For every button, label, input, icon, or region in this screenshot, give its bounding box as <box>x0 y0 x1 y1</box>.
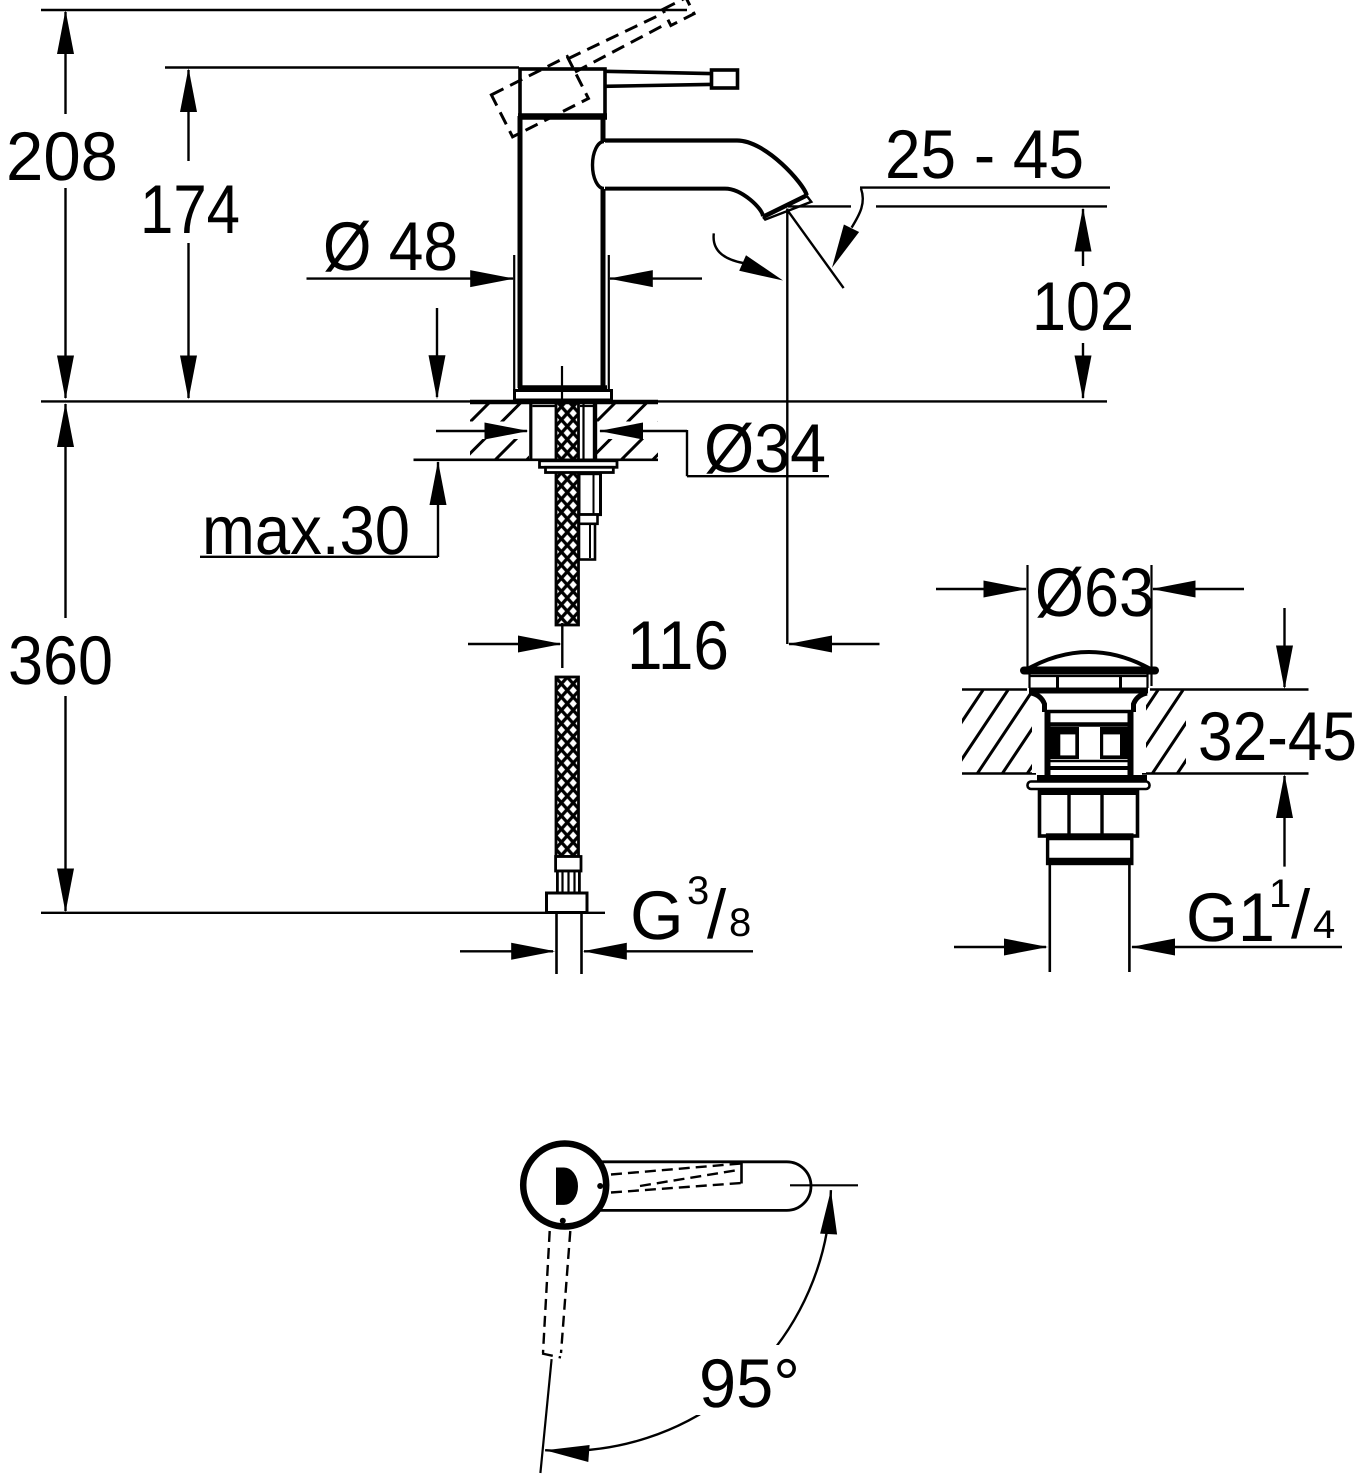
dimension 208 top reference line <box>41 9 687 11</box>
svg-text:G1: G1 <box>1186 879 1275 956</box>
svg-text:/: / <box>1291 876 1311 953</box>
svg-text:102: 102 <box>1032 268 1134 345</box>
waste flange bottom bar <box>1037 775 1147 782</box>
shank right wall <box>593 401 597 460</box>
slash mark <box>788 210 844 288</box>
svg-text:1: 1 <box>1269 872 1291 916</box>
drain hole white <box>1032 691 1146 773</box>
top view handle stadium <box>600 1162 811 1211</box>
dimension D34 leader <box>686 430 688 476</box>
top view dashed lever <box>611 1164 741 1193</box>
waste body lines <box>1046 710 1132 714</box>
dimension 174 line <box>187 70 189 161</box>
faucet body left edge <box>518 116 523 388</box>
spout height vertical line <box>786 209 788 645</box>
counter hatch <box>432 400 713 460</box>
dimension 208 line <box>64 12 66 114</box>
sink deck top line <box>962 688 1027 690</box>
shank inner line right <box>582 402 584 459</box>
faucet body right edge <box>601 118 606 142</box>
waste neck <box>1031 693 1045 712</box>
svg-text:max.30: max.30 <box>202 492 410 569</box>
braided hose lower segment <box>556 677 579 857</box>
waste hex nut <box>1040 790 1138 836</box>
svg-text:116: 116 <box>627 607 729 684</box>
waste collar <box>1048 835 1132 864</box>
waste window band <box>1046 727 1079 759</box>
svg-text:25 - 45: 25 - 45 <box>885 116 1084 193</box>
dimension 25-45 underline <box>860 186 1110 188</box>
svg-text:Ø63: Ø63 <box>1035 554 1154 631</box>
cap slot <box>1028 675 1030 689</box>
braided hose upper segment <box>556 401 579 625</box>
handle lever end cap <box>712 70 738 88</box>
dimension 102 <box>1082 209 1084 266</box>
supply tube <box>555 914 558 975</box>
dimension 32-45 arrows <box>1283 608 1285 687</box>
aerator band <box>763 196 811 220</box>
dimension D63 extension lines <box>1026 565 1028 668</box>
svg-text:174: 174 <box>140 171 240 248</box>
horizontal reference line <box>790 1184 858 1186</box>
spout outline <box>605 141 807 196</box>
dimension 116 right arrow <box>789 643 880 645</box>
waste tailpipe <box>1049 864 1052 972</box>
svg-text:G: G <box>630 877 684 954</box>
lever socket hole <box>556 1168 578 1205</box>
dimension G1 1/4 arrows <box>954 946 1046 948</box>
waste washer <box>1028 782 1150 790</box>
hose end collar <box>556 857 581 872</box>
dimension D48 arrows <box>307 277 514 279</box>
faucet cap <box>520 69 605 116</box>
svg-text:208: 208 <box>6 118 118 195</box>
dimension 360 line <box>64 404 66 618</box>
dashed handle (raised position) <box>491 0 706 137</box>
mounting washer <box>540 461 618 468</box>
shank top inner lines <box>533 405 557 407</box>
dimension 174 reference line <box>165 66 519 68</box>
dimension D63 arrows <box>936 588 1026 590</box>
waste flange bar <box>1029 688 1148 694</box>
shank left wall <box>529 401 532 460</box>
dimension 116 left arrow <box>468 643 560 645</box>
pop-up cap dome <box>1024 652 1154 671</box>
25-45 leader arrow <box>852 189 863 228</box>
svg-text:32-45: 32-45 <box>1198 698 1357 775</box>
dimension max.30 lower arrow + leader <box>437 462 439 557</box>
hose end ribbed nut <box>557 871 579 893</box>
sink deck bottom line <box>962 772 1036 774</box>
svg-text:8: 8 <box>729 901 751 945</box>
swivel arc arrow <box>714 233 744 263</box>
svg-text:360: 360 <box>8 622 113 699</box>
spout root bulge <box>593 142 605 189</box>
dashed lever rotated 95 deg <box>542 1231 570 1358</box>
dimension D48 extension lines <box>513 255 515 392</box>
handle lever rod <box>605 71 710 86</box>
svg-text:4: 4 <box>1313 903 1335 947</box>
dimension D34 arrows <box>436 430 527 432</box>
dimension max.30 upper arrow <box>436 308 438 397</box>
svg-text:Ø 48: Ø 48 <box>323 208 458 285</box>
spout mouth <box>763 196 807 218</box>
centerline <box>561 366 563 400</box>
pop-up cap rim bar <box>1024 667 1155 675</box>
top view body circle <box>523 1144 606 1227</box>
svg-text:Ø34: Ø34 <box>704 410 826 487</box>
svg-text:95°: 95° <box>699 1345 800 1422</box>
sink deck hatch <box>902 690 1283 774</box>
hose centerline gap <box>561 623 563 668</box>
dimension G3/8 arrows <box>460 950 553 952</box>
faucet base <box>518 385 607 390</box>
hose end hex nut <box>547 893 588 913</box>
svg-text:/: / <box>707 876 727 953</box>
svg-text:3: 3 <box>687 869 709 913</box>
95 deg arc <box>545 1190 831 1451</box>
circle dots <box>597 1183 603 1189</box>
lever axis line <box>540 1359 551 1473</box>
waste body lower line <box>1046 766 1132 770</box>
dimension 95 text background <box>688 1345 812 1415</box>
mounting stud fitting <box>579 474 601 515</box>
360 bottom reference line <box>41 912 605 914</box>
counter bottom line <box>414 458 659 461</box>
counter top line <box>41 400 470 402</box>
spout outlet reference line <box>788 205 851 207</box>
